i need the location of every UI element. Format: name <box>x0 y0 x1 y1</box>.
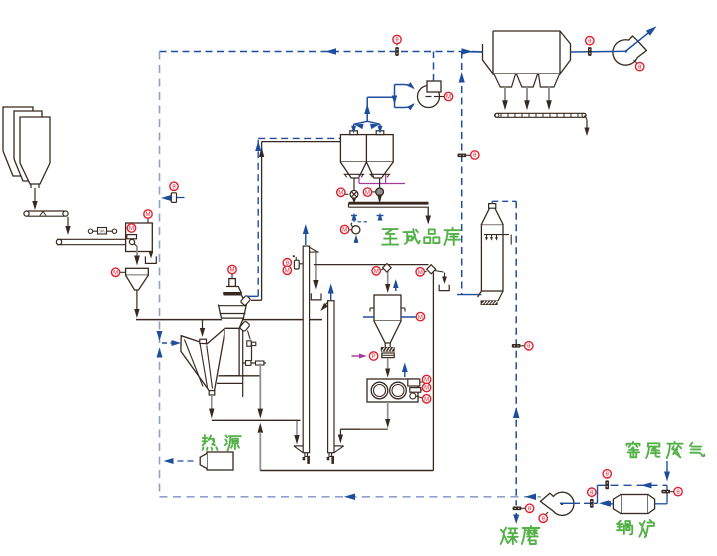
coal mill branch arrow <box>513 513 519 524</box>
spout drop arrow <box>209 395 214 419</box>
surge hopper (funnel) <box>126 268 149 290</box>
mill reject fitting 1 <box>247 341 256 361</box>
bin cones <box>340 162 393 178</box>
grit bin <box>370 295 405 321</box>
left grit duct <box>303 246 318 453</box>
raw coal silo 1 (front) <box>20 117 50 188</box>
raw coal silo 2 (middle) <box>14 111 42 181</box>
mill reject gray drop <box>258 364 264 419</box>
scraper chute body <box>181 329 225 392</box>
top header valve <box>393 35 401 56</box>
tower spray pipes <box>484 235 511 245</box>
mill motor <box>229 279 236 287</box>
mill motor bubble <box>228 265 236 278</box>
fan inlet valve <box>588 488 596 508</box>
svg-text:M: M <box>365 190 370 196</box>
mill lower casing <box>222 318 244 376</box>
coal mill fan bubble <box>539 512 548 523</box>
grit bin feed arrow <box>385 266 390 294</box>
svg-text:M: M <box>285 269 290 275</box>
svg-text:M: M <box>230 268 235 274</box>
grit bin inlet flap valve <box>372 264 391 275</box>
mill casing outer line <box>242 330 244 397</box>
coal mill fan <box>540 492 574 515</box>
mill separator cone <box>223 287 241 294</box>
magenta level signal lines <box>359 175 405 184</box>
dashed gas line: top header y=51.5 <box>160 48 484 55</box>
reject line y=420.3 <box>212 419 301 421</box>
bin vent manifold <box>351 97 394 134</box>
to finished-product silo label 至成品库 <box>382 228 460 245</box>
svg-text:M: M <box>424 397 429 403</box>
bag filter hoppers <box>494 74 560 87</box>
kiln gas dashed line <box>598 482 668 488</box>
left duct vent arrow <box>303 224 309 245</box>
mill side nozzle lower <box>239 321 250 340</box>
svg-text:M: M <box>374 269 379 275</box>
vent fan outlet dashed <box>433 52 435 82</box>
svg-text:M: M <box>338 191 343 197</box>
pump discharge <box>340 402 390 429</box>
screw vent arrow <box>402 363 408 378</box>
dashed gas line: left vertical x=159.5 <box>159 52 161 498</box>
bin1 discharge valve <box>337 178 358 204</box>
bag filter body <box>483 31 571 74</box>
line flap valve <box>425 265 436 274</box>
gate discharge arrow <box>385 358 390 378</box>
filter outlet line <box>571 51 613 54</box>
feeder motor bubble inner <box>127 224 135 232</box>
svg-text:P: P <box>372 354 376 360</box>
humidifying tower <box>481 204 503 291</box>
right duct bottom flare <box>327 446 344 464</box>
mill casing bottom line <box>217 376 260 384</box>
svg-text:M: M <box>418 315 423 321</box>
exhaust fan outlet arrow <box>626 24 659 51</box>
reject bottom line to bucket elevator <box>260 470 433 472</box>
left duct feed arrow <box>294 421 299 445</box>
hot gas arrow to circuit <box>164 458 194 464</box>
exhaust fan bubble <box>634 60 644 71</box>
feeder internals <box>127 235 138 247</box>
coal mill fan inlet line <box>560 500 609 506</box>
recirc line instrument <box>458 151 479 159</box>
screw pump unit <box>367 379 421 402</box>
hopper discharge arrow to mill feed line <box>134 290 139 318</box>
bin vent fan <box>418 81 442 108</box>
conveyor outlet arrow <box>425 207 431 225</box>
grit bin cone <box>374 321 401 347</box>
filter inlet blue line <box>462 51 483 53</box>
scraper discharge spout <box>209 391 215 395</box>
feeder discharge arrow <box>134 246 140 266</box>
pump unit bubbles <box>416 375 431 403</box>
rotary feeder striped <box>381 347 395 352</box>
boiler inlet from kiln line <box>655 485 667 504</box>
hopper motor bubble <box>111 268 125 276</box>
svg-text:M: M <box>113 271 118 277</box>
feeder motor bubble top <box>144 210 152 223</box>
filter outlet instrument <box>586 37 594 56</box>
coal mill label 煤磨 <box>501 526 540 544</box>
exhaust fan inlet <box>612 50 625 52</box>
heat source label 热源 <box>203 435 241 451</box>
grit bin vent arrow <box>393 279 399 291</box>
roots blower <box>340 223 360 234</box>
recirc into tower <box>457 294 481 296</box>
kiln exhaust inlet arrow <box>664 461 670 482</box>
mill body <box>218 295 246 318</box>
aeration point 2 <box>377 213 384 221</box>
svg-text:M: M <box>418 270 423 276</box>
svg-text:M: M <box>446 95 451 101</box>
duct damper bubbles <box>283 259 291 275</box>
raw coal silo 3 (back) <box>3 107 33 176</box>
kiln gas valve <box>603 470 611 490</box>
svg-text:M: M <box>424 386 429 392</box>
boiler <box>613 495 654 514</box>
vent fan bubble <box>434 92 453 100</box>
right duct vent arrow <box>328 284 334 301</box>
belt conveyor 1 <box>24 211 68 216</box>
boiler bypass riser <box>597 485 599 503</box>
dashed branch to scraper feeder <box>162 340 181 346</box>
exhaust fan <box>613 36 647 65</box>
coal mill branch valve <box>513 504 534 512</box>
mill outlet black line <box>251 142 340 301</box>
mill outlet nozzle upper <box>240 295 250 306</box>
svg-text:M: M <box>146 212 151 218</box>
boiler label 锅炉 <box>617 520 654 537</box>
aeration point 1 <box>351 213 357 223</box>
right duct feed line <box>338 429 360 443</box>
recirc dashed vertical x=461.7 <box>459 52 465 295</box>
belt conveyor 2 <box>56 239 126 244</box>
aeration dashed link <box>358 221 369 223</box>
blower inlet arrow <box>354 235 359 243</box>
right grit duct <box>328 301 334 453</box>
left vertical flow arrows <box>157 331 163 358</box>
twin bins <box>340 135 393 162</box>
hot gas generator <box>200 452 233 470</box>
duct damper valve <box>293 255 304 269</box>
purge air arrow magenta <box>352 352 378 360</box>
left duct drop leg <box>311 252 321 300</box>
grit collect line y=264.6 <box>314 252 429 265</box>
silo discharge arrow <box>32 188 37 210</box>
left duct bottom flare <box>294 446 310 464</box>
mill reject fitting 2 <box>243 361 266 366</box>
svg-text:VA: VA <box>99 229 104 234</box>
fluidised conveyor to silo <box>349 203 429 207</box>
boiler inlet valve <box>661 487 682 495</box>
hopper discharge arrows <box>502 87 552 110</box>
boiler outlet arrow <box>601 501 613 507</box>
cold air valve on left line <box>161 182 185 202</box>
coal feeder box <box>126 223 153 252</box>
kiln exhaust gas label 窑尾废气 <box>627 442 705 458</box>
bucket elevator line <box>432 273 434 471</box>
bin vent nozzles <box>350 131 384 135</box>
tower bottom flare <box>478 291 503 305</box>
svg-text:M: M <box>342 228 347 234</box>
mill outlet blue dashed line <box>247 138 340 296</box>
mill feed line y=319.6 <box>136 319 322 321</box>
reject up arrow below line <box>258 423 264 471</box>
flap valve bubble <box>416 268 427 276</box>
transfer drop arrow <box>65 217 70 235</box>
tower outlet dashed to coalmill fan <box>492 201 519 505</box>
bin2 discharge valve <box>363 178 383 204</box>
feed drop arrow into scraper <box>200 320 205 337</box>
vent drop right <box>434 271 449 291</box>
grit bin level lines <box>363 312 425 320</box>
feeder vent arrow and drain <box>145 252 156 264</box>
right duct inlet chamfer arrow <box>318 302 328 313</box>
belt weigher <box>88 228 116 235</box>
svg-text:M: M <box>129 226 134 232</box>
drag chain conveyor <box>495 113 586 117</box>
drag conveyor outlet arrow <box>584 116 590 136</box>
vent fan inlet bracket <box>392 82 417 110</box>
dashed gas line: bottom return y=496.8 <box>160 494 542 501</box>
tower line instrument <box>512 342 533 350</box>
slide gate <box>382 353 394 358</box>
